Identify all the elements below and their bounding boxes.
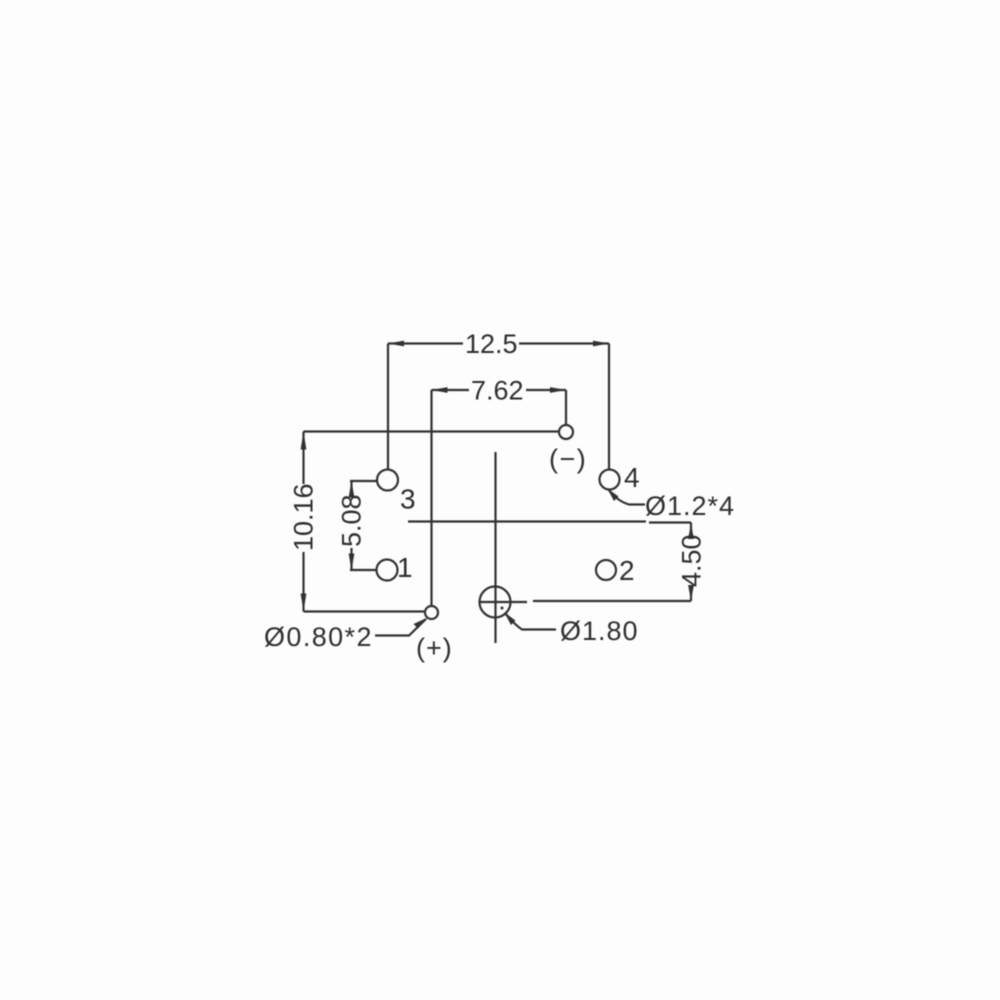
svg-text:7.62: 7.62 bbox=[471, 376, 524, 406]
extension segment toward 4.50 bbox=[649, 521, 691, 523]
pad hole 1 bbox=[377, 560, 398, 581]
mounting hole Ø1.80 bbox=[480, 587, 511, 618]
leader for hole note 1.80 bbox=[504, 612, 556, 630]
extension line left of 12.5 to pad 3 bbox=[387, 344, 389, 470]
dimension 10.16 line bbox=[301, 432, 307, 612]
pad hole 2 bbox=[596, 560, 616, 580]
center line vertical bbox=[494, 452, 496, 643]
dimension 5.08 top extension bbox=[350, 480, 377, 482]
svg-text:(+): (+) bbox=[416, 633, 453, 663]
bottom extension line of 10.16 bbox=[304, 610, 425, 612]
svg-text:Ø1.80: Ø1.80 bbox=[560, 616, 639, 646]
dimension 5.08 line bbox=[349, 481, 355, 570]
bottom extension line of 4.50 bbox=[533, 600, 691, 602]
svg-text:Ø1.2*4: Ø1.2*4 bbox=[645, 491, 735, 521]
extension line right of 7.62 to cathode pin bbox=[565, 390, 567, 425]
extension line left of 7.62 to anode pin bbox=[430, 390, 432, 605]
dimension 4.50 line bbox=[688, 523, 694, 602]
leader for hole note 1.2x4 bbox=[607, 488, 645, 505]
svg-text:(−): (−) bbox=[549, 444, 587, 474]
svg-text:12.5: 12.5 bbox=[465, 329, 518, 359]
svg-text:1: 1 bbox=[397, 552, 413, 583]
leader for hole note 0.80*2 bbox=[375, 618, 428, 636]
dimension 12.5 line bbox=[388, 341, 609, 347]
svg-text:3: 3 bbox=[400, 484, 416, 515]
svg-text:Ø0.80*2: Ø0.80*2 bbox=[264, 622, 373, 652]
mounting hole center mark bbox=[501, 607, 504, 610]
cathode pin hole (-) bbox=[559, 425, 573, 439]
pad hole 4 bbox=[600, 470, 620, 490]
extension line right of 12.5 to pad 4 bbox=[608, 344, 610, 470]
svg-text:5.08: 5.08 bbox=[337, 494, 367, 547]
center line horizontal bbox=[408, 520, 646, 522]
top extension line of 10.16 bbox=[304, 430, 560, 432]
pad hole 3 bbox=[377, 470, 398, 491]
svg-text:2: 2 bbox=[619, 555, 635, 586]
dimension 7.62 line bbox=[432, 387, 567, 393]
svg-text:4: 4 bbox=[624, 462, 640, 493]
svg-text:4.50: 4.50 bbox=[677, 534, 707, 587]
svg-text:10.16: 10.16 bbox=[289, 483, 319, 551]
anode pin hole (+) bbox=[425, 606, 438, 619]
mounting hole cross tick bbox=[479, 601, 527, 603]
dimension 5.08 bottom extension bbox=[350, 569, 376, 571]
